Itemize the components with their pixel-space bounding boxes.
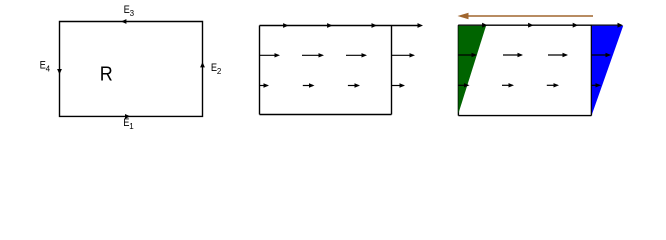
svg-text:E2: E2 (211, 62, 222, 76)
top flow arrowhead a (panel 3) (482, 23, 488, 28)
top flow arrowhead d (panel 2) (418, 23, 424, 28)
flow arrow row1 a (panel 2) (260, 54, 279, 56)
svg-text:E3: E3 (124, 4, 135, 18)
edge E4 arrowhead (left, downward) (57, 69, 62, 74)
wire left edge (panel 3) (457, 25, 459, 115)
edge E3 arrowhead (top, leftward) (121, 19, 126, 24)
edge E2 arrowhead (right, upward) (200, 62, 205, 67)
flow arrow row2 a (panel 2) (260, 85, 268, 87)
flow arrow row1 b (panel 3) (503, 54, 522, 56)
svg-text:R: R (100, 64, 113, 86)
wire top edge (panel 2) (260, 25, 421, 27)
flow arrow row1 d (panel 3) (592, 54, 610, 56)
top flow arrowhead d (panel 3) (618, 23, 624, 28)
flow arrow row1 c (panel 2) (346, 54, 366, 56)
region R outline (60, 22, 203, 117)
flow arrow row1 a (panel 3) (458, 54, 476, 56)
flow arrow row2 c (panel 2) (348, 85, 359, 87)
top flow arrowhead a (panel 2) (283, 23, 289, 28)
wire left edge (panel 2) (259, 26, 261, 115)
green swept-in triangle (458, 26, 486, 114)
flow arrow row2 c (panel 3) (547, 84, 558, 86)
flow arrow row2 b (panel 2) (303, 85, 313, 87)
net displacement arrow (brown, leftward) (458, 13, 594, 20)
flow arrow row2 d (panel 2) (392, 85, 404, 87)
svg-text:E1: E1 (123, 117, 134, 131)
flow arrow row2 b (panel 3) (502, 84, 513, 86)
top flow arrowhead b (panel 2) (327, 23, 333, 28)
top flow arrowhead c (panel 2) (372, 23, 378, 28)
wire bottom edge (panel 3) (458, 115, 591, 117)
wire right edge (panel 2) (391, 26, 393, 115)
flow arrow row2 a (panel 3) (458, 84, 468, 86)
svg-text:E4: E4 (40, 60, 51, 74)
wire bottom edge (panel 2) (260, 114, 392, 116)
flow arrow row1 b (panel 2) (302, 54, 323, 56)
edge E1 arrowhead (bottom, rightward) (125, 114, 130, 119)
wire top edge (panel 3) (458, 24, 620, 26)
top flow arrowhead b (panel 3) (528, 23, 534, 28)
wire right edge (panel 3) (590, 25, 592, 115)
blue swept-out triangle (592, 26, 623, 115)
flow arrow row1 c (panel 3) (548, 54, 567, 56)
flow arrow row2 d (panel 3) (592, 84, 600, 86)
flow arrow row1 d (panel 2) (392, 54, 414, 56)
top flow arrowhead c (panel 3) (573, 23, 579, 28)
